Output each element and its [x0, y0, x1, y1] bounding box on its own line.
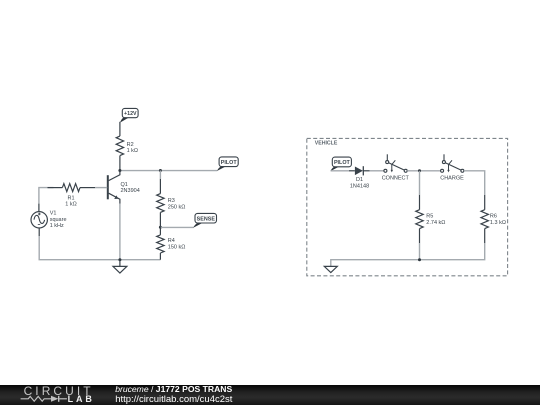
svg-text:http://circuitlab.com/cu4c2st: http://circuitlab.com/cu4c2st — [115, 394, 233, 405]
node vehicle ground junction — [418, 258, 421, 261]
svg-text:SENSE: SENSE — [197, 216, 216, 222]
svg-text:PILOT: PILOT — [221, 160, 238, 166]
svg-text:LAB: LAB — [68, 394, 95, 404]
svg-text:150 kΩ: 150 kΩ — [168, 245, 186, 251]
wire V1 to R1 — [39, 188, 54, 204]
wire R5 bottom — [419, 243, 421, 260]
svg-text:R5: R5 — [426, 214, 433, 220]
svg-text:R2: R2 — [127, 142, 134, 148]
svg-text:D1: D1 — [356, 177, 363, 183]
svg-text:1 kΩ: 1 kΩ — [65, 201, 76, 207]
diode D1 — [349, 166, 370, 189]
svg-text:1 kHz: 1 kHz — [50, 223, 64, 229]
net flag +12V — [120, 108, 138, 122]
svg-text:bruceme / J1772 POS TRANS: bruceme / J1772 POS TRANS — [115, 384, 232, 394]
CircuitLab logo — [21, 384, 95, 404]
net flag SENSE — [193, 213, 216, 227]
resistor R5 — [416, 195, 446, 243]
switch SW2 CHARGE — [440, 154, 464, 181]
wire emitter to ground rail — [119, 204, 121, 260]
resistor R2 — [116, 122, 138, 171]
svg-text:1N4148: 1N4148 — [350, 183, 369, 189]
wire R1 to Q1 base — [95, 187, 107, 189]
svg-text:PILOT: PILOT — [334, 160, 351, 166]
svg-text:2N3904: 2N3904 — [121, 188, 140, 194]
svg-text:CONNECT: CONNECT — [382, 176, 410, 182]
resistor R4 — [157, 227, 186, 260]
voltage source V1 — [31, 204, 67, 236]
svg-text:VEHICLE: VEHICLE — [315, 140, 338, 146]
svg-text:R6: R6 — [490, 214, 497, 220]
node SENSE junction — [159, 226, 162, 229]
wire CONNECT to CHARGE — [407, 170, 440, 172]
wire D1 to CONNECT — [370, 170, 384, 172]
node R3 top junction — [159, 169, 162, 172]
svg-text:square: square — [50, 217, 67, 223]
wire SENSE branch — [160, 226, 193, 228]
node ground junction — [118, 258, 121, 261]
svg-text:2.74 kΩ: 2.74 kΩ — [426, 220, 445, 226]
svg-text:V1: V1 — [50, 211, 57, 217]
ground (left circuit) — [113, 260, 127, 273]
wire collector node to PILOT flag — [120, 170, 217, 172]
transistor Q1 — [108, 171, 140, 204]
svg-text:250 kΩ: 250 kΩ — [168, 204, 186, 210]
vehicle enclosure dashed box — [307, 138, 508, 275]
wire R5 top — [419, 171, 421, 195]
resistor R1 — [48, 184, 96, 208]
resistor R6 — [481, 195, 506, 243]
wire CHARGE to R6 — [464, 171, 485, 195]
svg-text:CHARGE: CHARGE — [440, 176, 464, 182]
svg-text:1 kΩ: 1 kΩ — [127, 148, 138, 154]
wire PILOT to D1 — [331, 170, 349, 172]
resistor R3 — [157, 171, 186, 228]
wire V1 to bottom rail — [39, 236, 160, 260]
node R5 top junction — [418, 169, 421, 172]
ground (vehicle) — [324, 266, 337, 272]
svg-text:R4: R4 — [168, 238, 175, 244]
net flag PILOT — [217, 157, 238, 171]
svg-text:R3: R3 — [168, 198, 175, 204]
net flag PILOT (vehicle) — [330, 157, 351, 171]
svg-text:1.3 kΩ: 1.3 kΩ — [490, 220, 506, 226]
node collector junction — [118, 169, 121, 172]
switch SW1 CONNECT — [382, 154, 410, 181]
svg-text:+12V: +12V — [124, 111, 137, 117]
footer bar — [0, 385, 540, 405]
wire bottom rail (vehicle) — [331, 243, 485, 266]
